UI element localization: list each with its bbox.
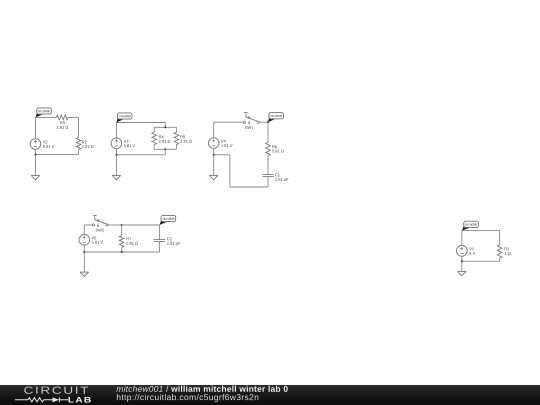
node C3 top-right junction bbox=[267, 121, 269, 123]
wire C4 top-right bbox=[122, 224, 160, 226]
label C2 bbox=[167, 237, 172, 240]
wire C2 left upper bbox=[115, 123, 117, 139]
callout bubble C1 bbox=[36, 112, 44, 118]
wire C5 left upper bbox=[461, 231, 463, 246]
label V3 bbox=[124, 140, 129, 143]
wire C5 bottom bbox=[462, 260, 500, 262]
voltage source V4 bbox=[208, 138, 219, 149]
footer title line bbox=[116, 386, 162, 392]
wire R7 bottom stub bbox=[121, 247, 123, 252]
wire C4 top-left bbox=[84, 224, 92, 226]
wire C3 left lower bbox=[213, 148, 215, 154]
wire C1 left lower bbox=[35, 149, 37, 154]
wire C5 right lower bbox=[499, 258, 501, 261]
wire C5 left lower bbox=[461, 256, 463, 261]
ground C4 bbox=[80, 271, 89, 273]
node C2 bottom junction bbox=[164, 148, 166, 150]
wire C1 ground lead bbox=[35, 155, 37, 176]
node C3 source junction bbox=[213, 154, 215, 156]
wire C4 left upper bbox=[83, 225, 85, 235]
label R7 bbox=[127, 237, 132, 240]
voltage source V1 bbox=[456, 246, 467, 257]
logo resistor-diode symbol bbox=[15, 398, 53, 402]
node C2 top junction bbox=[164, 126, 166, 128]
wire C2 top bar bbox=[154, 126, 176, 128]
wire C2 left lower bbox=[115, 149, 117, 155]
label C1 bbox=[275, 174, 280, 177]
wire C1 bottom bbox=[36, 154, 79, 156]
wire C3 right mid bbox=[267, 156, 269, 175]
footer bar bbox=[0, 385, 540, 405]
wire C3 ground lead bbox=[213, 155, 215, 176]
wire C3 bottom riser bbox=[229, 155, 231, 187]
wire C4 left lower bbox=[83, 245, 85, 252]
voltage source V5 bbox=[79, 235, 90, 246]
node C4 source junction bbox=[83, 251, 85, 253]
wire C2 top drop bbox=[164, 123, 166, 128]
label V1 bbox=[469, 248, 474, 251]
ground C1 bbox=[31, 174, 40, 176]
wire C5 top bbox=[462, 230, 500, 232]
wire C1 top-left segment bbox=[36, 116, 57, 118]
wire C3 top-left bbox=[214, 121, 244, 123]
wire R5 bottom stub bbox=[175, 145, 177, 150]
wire C3 cap bottom bbox=[267, 177, 269, 188]
voltage source V3 bbox=[111, 138, 122, 149]
wire R4 top stub bbox=[153, 127, 155, 132]
capacitor C1 bbox=[262, 174, 273, 176]
switch SW1 bbox=[243, 121, 245, 123]
callout bubble C5 bbox=[462, 225, 471, 231]
wire C1 right lower bbox=[78, 150, 80, 155]
node C4 R7 top junction bbox=[121, 224, 123, 226]
callout bubble C2 bbox=[117, 117, 125, 123]
callout bubble C3 bbox=[268, 116, 276, 122]
resistor R4 bbox=[152, 132, 157, 144]
resistor R6 bbox=[266, 142, 271, 156]
wire C2cap bottom stub bbox=[158, 241, 160, 252]
label R2 bbox=[82, 141, 87, 144]
wire C1 left upper bbox=[35, 117, 37, 138]
wire C1 right upper bbox=[78, 117, 80, 137]
footer logo wordmark CIRCUIT bbox=[24, 387, 88, 394]
node C5 junction bbox=[461, 260, 463, 262]
wire R4 bottom stub bbox=[153, 145, 155, 150]
wire C5 right upper bbox=[499, 231, 501, 245]
voltage source V2 bbox=[30, 139, 41, 150]
wire C4 bottom bbox=[84, 251, 159, 253]
ground C5 bbox=[458, 270, 467, 272]
label R6 bbox=[272, 145, 277, 148]
label R1 bbox=[505, 248, 510, 251]
wire C4 ground lead bbox=[83, 252, 85, 272]
wire R5 top stub bbox=[175, 127, 177, 132]
label R0 bbox=[60, 121, 65, 124]
label R5 bbox=[181, 135, 186, 138]
wire C2 top bbox=[116, 122, 165, 124]
label V4 bbox=[221, 140, 226, 143]
wire C3 top-right bbox=[260, 121, 268, 123]
wire C4 top-mid bbox=[108, 224, 122, 226]
wire C3 left upper bbox=[213, 122, 215, 138]
wire C2 bottom bar bbox=[154, 148, 176, 150]
label SW2 bbox=[96, 229, 104, 232]
wire C3 bottom bbox=[230, 186, 268, 188]
callout bubble C4 bbox=[160, 219, 169, 225]
label V2 bbox=[43, 141, 48, 144]
node C2 source junction bbox=[115, 154, 117, 156]
label R4 bbox=[159, 135, 164, 138]
resistor R1 bbox=[497, 245, 502, 259]
wire C5 ground lead bbox=[461, 261, 463, 271]
resistor R2 bbox=[76, 137, 81, 149]
wire C2 ground lead bbox=[115, 155, 117, 176]
label SW1 bbox=[245, 126, 253, 129]
ground C3 bbox=[209, 174, 218, 176]
wire C3 right upper bbox=[267, 122, 269, 142]
label V5 bbox=[92, 236, 97, 239]
wire C2cap top stub bbox=[158, 225, 160, 239]
wire C1 top-right segment bbox=[68, 116, 78, 118]
logo wordmark LAB bbox=[68, 397, 90, 402]
resistor R7 bbox=[119, 236, 124, 248]
node C1 bottom junction bbox=[34, 154, 36, 156]
wire C3 bottom-left bbox=[214, 154, 230, 156]
capacitor C2 bbox=[154, 239, 165, 241]
wire C2 bottom drop bbox=[164, 149, 166, 155]
ground C2 bbox=[112, 174, 121, 176]
node C4 R7 bottom junction bbox=[121, 251, 123, 253]
footer url line bbox=[117, 394, 258, 402]
resistor R0 bbox=[56, 115, 68, 120]
wire R7 top stub bbox=[121, 225, 123, 236]
wire C2 bottom bbox=[116, 154, 165, 156]
resistor R5 bbox=[174, 132, 179, 144]
switch SW2 bbox=[92, 224, 94, 226]
